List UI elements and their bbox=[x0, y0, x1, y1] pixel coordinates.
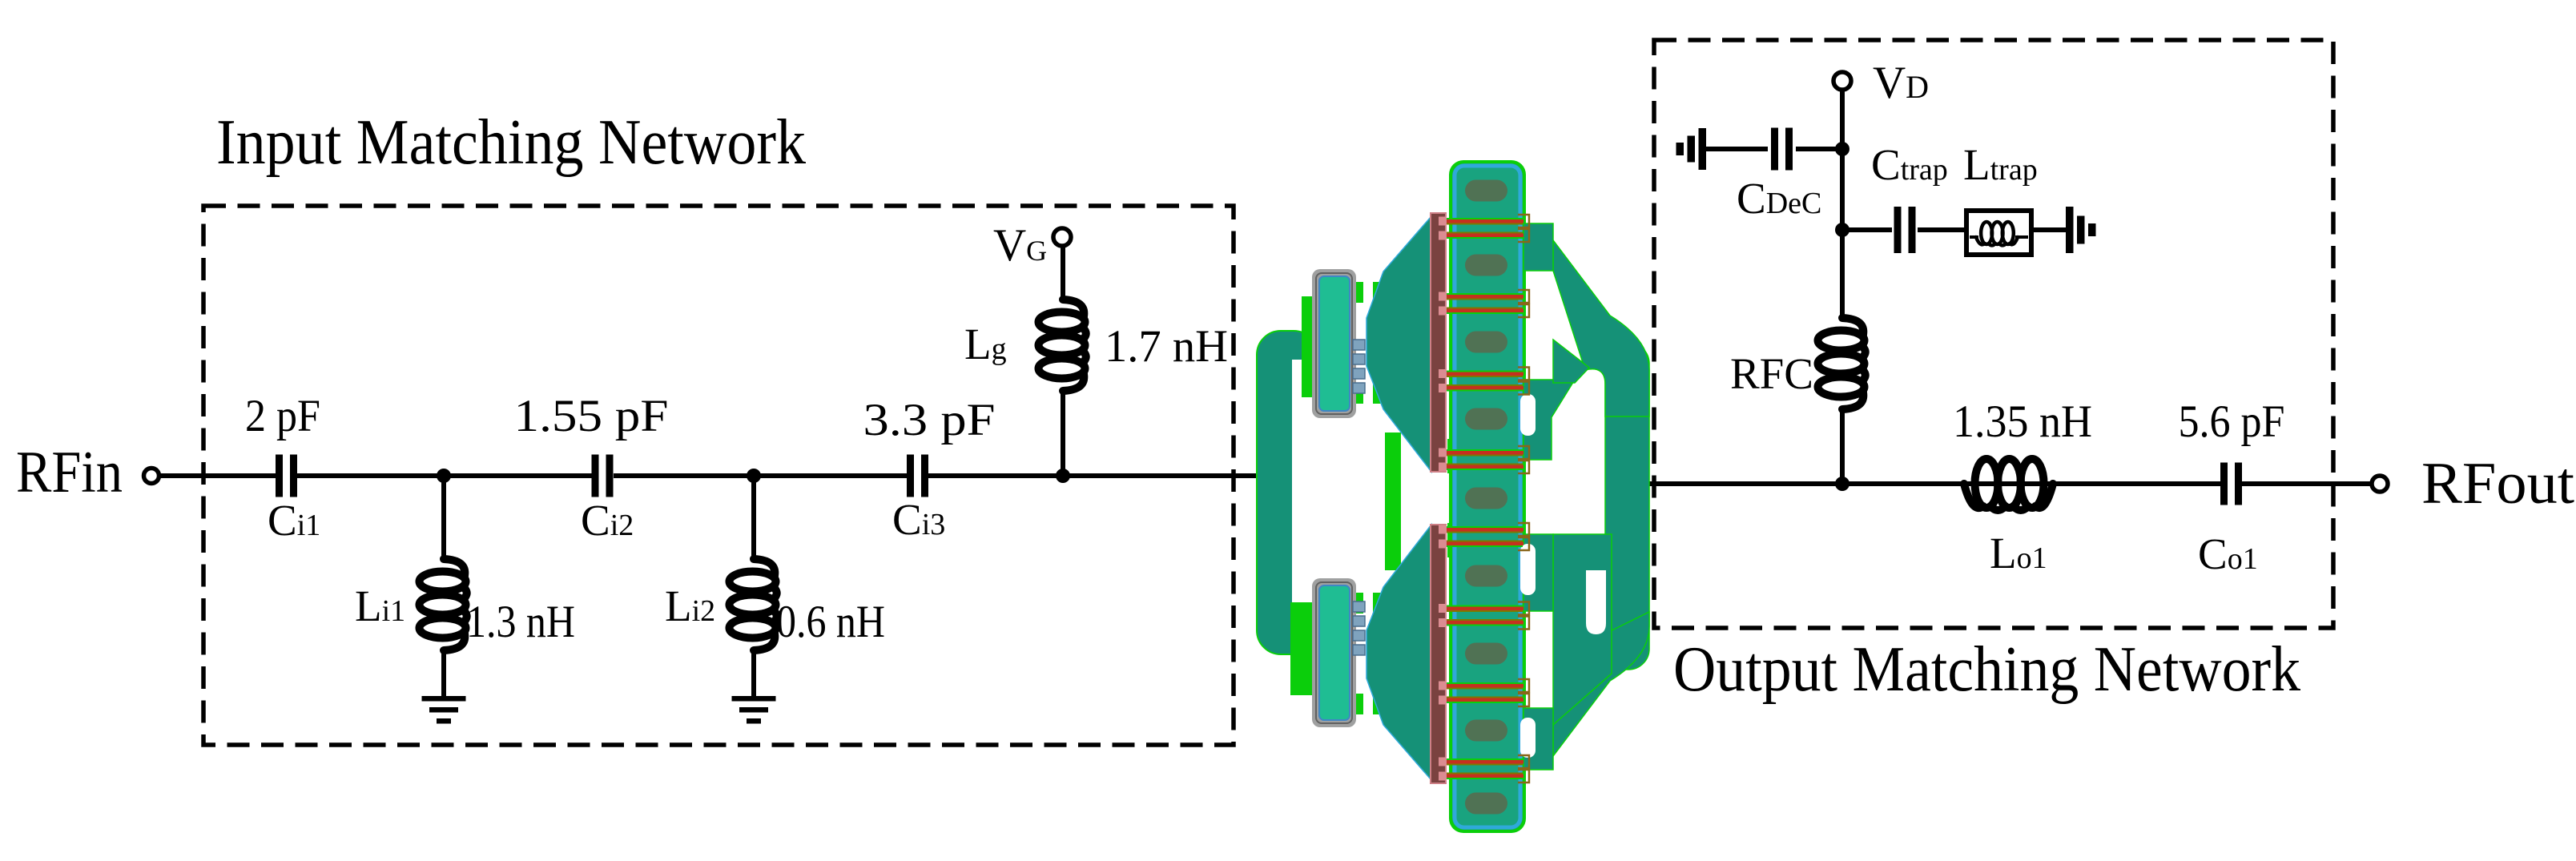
wire Ctrap to Ltrap bbox=[1918, 227, 1966, 232]
svg-text:1.3 nH: 1.3 nH bbox=[466, 597, 575, 647]
layout: gate pad bottom bbox=[1312, 578, 1356, 727]
wire CDeC to ground bbox=[1706, 147, 1768, 151]
wire node D to CDeC bbox=[1796, 147, 1842, 151]
capacitor CDeC bbox=[1771, 128, 1793, 171]
wire Ci1 to Ci2 bbox=[297, 473, 592, 478]
layout: green sliver bottom bbox=[1290, 602, 1312, 695]
svg-text:1.7 nH: 1.7 nH bbox=[1105, 321, 1228, 372]
inductor Ltrap coil bbox=[1976, 222, 2018, 245]
wire node C to Lg bbox=[1061, 392, 1065, 476]
wire Ltrap to ground bbox=[2031, 227, 2066, 232]
inductor Lo1 bbox=[1964, 459, 2053, 510]
node A (Ci1/Ci2/Li1 junction) bbox=[437, 469, 451, 483]
wire Ci3 to transistor gate bbox=[928, 473, 1259, 478]
wire node B to Li2 bbox=[751, 476, 756, 561]
wire drain to Co1 bbox=[1648, 481, 2220, 486]
svg-text:RFin: RFin bbox=[16, 440, 123, 505]
layout: drain manifold bbox=[1523, 223, 1649, 770]
inductor RFC bbox=[1818, 318, 1866, 409]
wire RFC to node F bbox=[1840, 409, 1845, 484]
wire Ci2 to Ci3 bbox=[614, 473, 907, 478]
layout: gate pad connectors bbox=[1356, 282, 1383, 303]
wire Ltrap lead-in bbox=[1970, 235, 1978, 239]
capacitor Ci3 bbox=[907, 455, 928, 497]
svg-text:5.6 pF: 5.6 pF bbox=[2179, 396, 2285, 447]
wire Ltrap lead-out bbox=[2015, 235, 2028, 239]
layout: center green trace bbox=[1385, 433, 1401, 633]
capacitor Ci1 bbox=[276, 455, 297, 497]
terminal RFin bbox=[144, 469, 159, 484]
svg-text:RFout: RFout bbox=[2421, 451, 2574, 517]
input matching network dashed box bbox=[203, 206, 1234, 745]
output matching network dashed box bbox=[1654, 40, 2333, 628]
inductor Ltrap box bbox=[1966, 211, 2031, 255]
svg-text:2 pF: 2 pF bbox=[245, 391, 320, 441]
wire Li2 to ground bbox=[751, 650, 756, 698]
layout: gate bar top bbox=[1431, 213, 1446, 472]
wire node D to node E bbox=[1840, 149, 1845, 230]
node D (CDeC junction) bbox=[1835, 142, 1849, 156]
ground Li1 bbox=[422, 696, 466, 724]
capacitor Co1 bbox=[2220, 463, 2242, 505]
svg-text:0.6 nH: 0.6 nH bbox=[776, 597, 885, 647]
wire Li1 to ground bbox=[441, 650, 446, 698]
wire Lg to VG bbox=[1061, 246, 1065, 300]
node E (Ctrap junction) bbox=[1835, 223, 1849, 237]
layout: gate bar bottom bbox=[1431, 525, 1446, 783]
terminal VD bbox=[1833, 72, 1851, 90]
wire node E to RFC bbox=[1840, 230, 1845, 319]
ground CDeC bbox=[1676, 128, 1707, 170]
layout: drain/source strip bbox=[1449, 160, 1526, 833]
node C (Ci3/Lg junction) bbox=[1056, 469, 1070, 483]
ground Li2 bbox=[732, 696, 776, 724]
layout: gate funnel bottom cell bbox=[1366, 525, 1431, 780]
transistor layout artwork bbox=[1257, 160, 1649, 833]
svg-text:1.55 pF: 1.55 pF bbox=[514, 391, 669, 441]
terminal VG bbox=[1053, 228, 1071, 246]
node F (RFC/output junction) bbox=[1835, 477, 1849, 491]
inductor Li2 bbox=[730, 559, 777, 650]
layout: gate fingers bbox=[1439, 215, 1529, 242]
layout: gate feed bus (C-shape) bbox=[1257, 331, 1318, 654]
layout: via ovals bbox=[1465, 180, 1507, 202]
svg-text:3.3 pF: 3.3 pF bbox=[863, 395, 996, 445]
ground Ltrap bbox=[2066, 207, 2096, 253]
wire Co1 to RFout bbox=[2242, 481, 2372, 486]
wire node E to Ctrap bbox=[1842, 227, 1892, 232]
layout: gate funnel top cell bbox=[1366, 216, 1431, 472]
layout: gate pad top bbox=[1312, 269, 1356, 418]
inductor Lg bbox=[1039, 300, 1086, 391]
wire VD to node D bbox=[1840, 90, 1845, 149]
capacitor Ci2 bbox=[592, 455, 614, 497]
svg-text:Input Matching Network: Input Matching Network bbox=[216, 107, 806, 178]
svg-text:RFC: RFC bbox=[1730, 349, 1813, 398]
wire node A to Li1 bbox=[441, 476, 446, 561]
capacitor Ctrap bbox=[1894, 207, 1916, 253]
wire RFin to Ci1 bbox=[159, 473, 276, 478]
inductor Li1 bbox=[420, 559, 467, 650]
terminal RFout bbox=[2372, 476, 2388, 492]
svg-text:1.35 nH: 1.35 nH bbox=[1953, 396, 2092, 447]
layout: green sliver top bbox=[1302, 296, 1312, 397]
layout: bond pads bbox=[1353, 340, 1365, 350]
node B (Ci2/Ci3/Li2 junction) bbox=[747, 469, 761, 483]
layout: manifold notches bbox=[1520, 394, 1536, 436]
svg-text:Output Matching Network: Output Matching Network bbox=[1673, 634, 2300, 705]
